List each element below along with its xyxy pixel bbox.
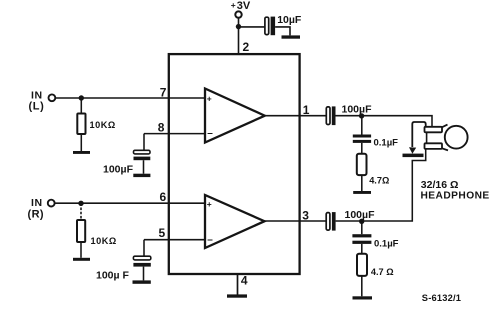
wire: pin 5 feedback line to op-amp B - input [144, 239, 205, 241]
svg-text:0.1µF: 0.1µF [374, 137, 399, 148]
+3V supply terminal [231, 0, 251, 18]
svg-text:S-6132/1: S-6132/1 [422, 293, 461, 303]
svg-text:2: 2 [243, 40, 250, 54]
wire: 0.1µF to resistor 4.7Ω (L) [361, 143, 363, 154]
IC U1 box [169, 54, 300, 274]
capacitor 10µF [265, 17, 275, 36]
svg-text:4.7 Ω: 4.7 Ω [371, 267, 394, 277]
headphone jack sleeve outline [412, 122, 425, 147]
wire: 100µF to headphone tip contact [336, 116, 433, 127]
ground (R bypass cap) [133, 280, 151, 283]
label 32/16 Ω HEADPHONE [421, 179, 490, 202]
svg-text:10KΩ: 10KΩ [90, 120, 116, 130]
capacitor 100µF (R bypass) [133, 256, 150, 266]
wire: L junction down to capacitor 0.1µF [361, 116, 363, 135]
ground (supply decoupling cap) [282, 35, 301, 38]
wire: +3V terminal down to IC pin 2 [238, 18, 240, 54]
wire: 0.1µF to resistor 4.7Ω (R) [361, 244, 363, 254]
svg-text:–: – [207, 128, 213, 139]
wire: resistor 4.7Ω (R) to ground [361, 276, 363, 296]
resistor 10KΩ (R input) [77, 220, 85, 242]
svg-text:+: + [207, 93, 212, 103]
node: supply junction [236, 24, 241, 29]
headphone jack tip contact [425, 127, 443, 133]
svg-text:4.7Ω: 4.7Ω [369, 175, 389, 185]
svg-text:10µF: 10µF [277, 14, 302, 26]
wire: IN(L) to op-amp A + input (pin 7) [56, 97, 206, 99]
svg-text:8: 8 [158, 121, 165, 135]
svg-text:100µF: 100µF [103, 163, 134, 175]
ground arrow (headphone sleeve) [409, 147, 416, 154]
capacitor 0.1µF (L zobel) [353, 135, 371, 143]
headphone jack plug body circle [442, 125, 468, 151]
input terminal IN (R) [28, 197, 55, 220]
wire: supply junction to capacitor 10µF [239, 26, 266, 28]
node: L input junction [79, 95, 84, 100]
input terminal IN (L) [29, 89, 56, 112]
ground (R input resistor) [73, 258, 90, 261]
svg-text:5: 5 [159, 226, 166, 240]
wire: R junction down to capacitor 0.1µF [361, 221, 363, 234]
svg-text:IN: IN [31, 197, 43, 209]
node: L output junction [359, 113, 364, 118]
ground (L input resistor) [73, 151, 90, 154]
headphone jack ring contact [425, 143, 443, 149]
svg-text:+: + [231, 0, 236, 10]
svg-text:32/16 Ω: 32/16 Ω [421, 179, 459, 191]
wire: R junction down to resistor 10KΩ [80, 203, 82, 220]
ground (L bypass cap) [133, 174, 150, 177]
svg-text:1: 1 [303, 103, 310, 117]
capacitor 100µF (L output coupling) [326, 106, 335, 125]
wire: resistor 4.7Ω (L) to ground [361, 175, 363, 191]
wire: capacitor 100µF (L) to ground [143, 160, 145, 174]
wire: capacitor 10µF to ground [275, 27, 290, 36]
wire: L junction down to resistor 10KΩ [80, 98, 82, 114]
wire: 100µF (R) to headphone ring contact [336, 149, 426, 222]
wire: resistor 10KΩ (L) to ground [80, 134, 82, 151]
wire: IC pin 4 stub to ground [237, 274, 239, 295]
svg-text:100µF: 100µF [342, 104, 373, 116]
svg-text:–: – [207, 234, 213, 245]
svg-text:100µF: 100µF [345, 209, 376, 221]
ground (headphone) [403, 154, 424, 158]
node: R input junction [78, 201, 83, 206]
svg-text:HEADPHONE: HEADPHONE [421, 191, 490, 202]
svg-text:(R): (R) [28, 208, 44, 220]
node: R output junction [359, 219, 364, 224]
wire: pin 8 feedback line to op-amp A - input [144, 133, 205, 135]
ground (R zobel) [353, 296, 373, 299]
svg-text:+: + [207, 199, 212, 209]
resistor 4.7Ω (R zobel) [357, 254, 367, 276]
svg-text:0.1µF: 0.1µF [374, 239, 399, 250]
wire: IN(R) to op-amp B + input (pin 6) [55, 202, 205, 204]
wire: capacitor 100µF (R) to ground [143, 267, 145, 281]
op-amp B (bottom, right channel) [205, 195, 265, 248]
resistor 4.7Ω (L zobel) [357, 154, 367, 175]
capacitor 0.1µF (R zobel) [352, 234, 371, 244]
capacitor 100µF (L bypass) [134, 150, 151, 160]
svg-text:4: 4 [241, 274, 248, 288]
wire: pin 5 line down to capacitor 100µF (R) [143, 240, 145, 257]
wire: op-amp B output (pin 3) to capacitor 100µF [264, 220, 326, 222]
svg-text:7: 7 [160, 85, 167, 99]
ground (L zobel) [353, 191, 371, 194]
capacitor 100µF (R output coupling) [326, 212, 335, 231]
resistor 10KΩ (L input) [77, 114, 85, 135]
svg-text:10KΩ: 10KΩ [91, 236, 117, 246]
svg-text:6: 6 [160, 190, 167, 204]
ground (IC pin 4) [227, 294, 247, 297]
svg-text:(L): (L) [29, 100, 45, 112]
svg-text:3V: 3V [237, 0, 251, 12]
op-amp A (top, left channel) [205, 89, 265, 143]
svg-text:100µ F: 100µ F [96, 269, 129, 281]
wire: pin 8 line down to capacitor 100µF (L) [143, 134, 145, 151]
wire: resistor 10KΩ (R) to ground [80, 242, 82, 258]
wire: op-amp A output (pin 1) to capacitor 100µF [265, 115, 327, 117]
